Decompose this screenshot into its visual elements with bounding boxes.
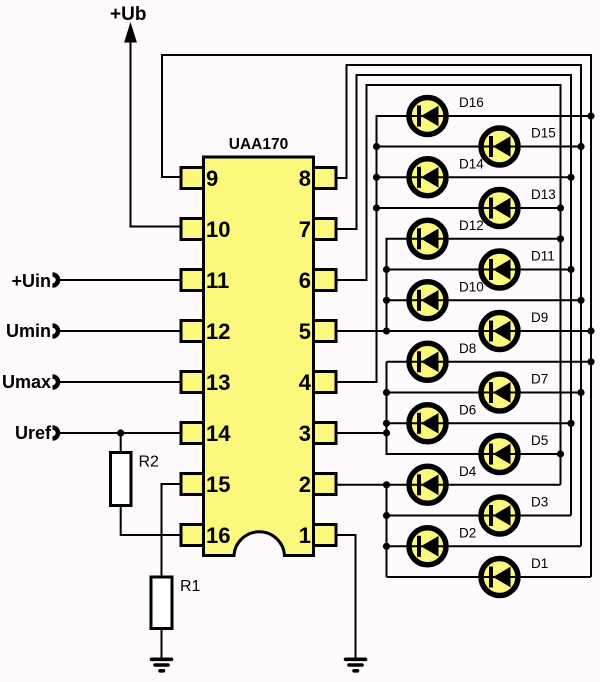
svg-text:13: 13	[206, 370, 230, 395]
svg-text:D13: D13	[531, 187, 556, 202]
svg-text:D2: D2	[459, 525, 476, 540]
svg-text:R2: R2	[139, 454, 160, 471]
svg-text:D5: D5	[531, 433, 548, 448]
svg-text:D7: D7	[531, 372, 548, 387]
svg-text:+Ub: +Ub	[110, 4, 146, 25]
svg-text:D11: D11	[531, 249, 555, 264]
svg-text:15: 15	[206, 472, 230, 497]
svg-text:12: 12	[206, 319, 230, 344]
svg-text:UAA170: UAA170	[229, 136, 288, 153]
svg-text:6: 6	[299, 268, 311, 293]
svg-text:D10: D10	[459, 279, 484, 294]
svg-text:D12: D12	[459, 218, 484, 233]
svg-text:D14: D14	[459, 156, 484, 171]
svg-text:D4: D4	[459, 464, 477, 479]
svg-text:D15: D15	[531, 126, 556, 141]
svg-text:R1: R1	[180, 578, 201, 595]
svg-text:4: 4	[299, 370, 312, 395]
svg-text:Umax: Umax	[2, 372, 51, 392]
svg-text:D1: D1	[531, 556, 548, 571]
svg-text:+Uin: +Uin	[11, 271, 51, 291]
svg-text:1: 1	[299, 523, 311, 548]
svg-text:11: 11	[206, 268, 229, 293]
svg-text:D16: D16	[459, 95, 484, 110]
svg-text:9: 9	[206, 166, 218, 191]
svg-text:16: 16	[206, 523, 230, 548]
svg-text:D3: D3	[531, 495, 548, 510]
svg-text:14: 14	[206, 421, 231, 446]
svg-text:7: 7	[299, 217, 311, 242]
svg-text:2: 2	[299, 472, 311, 497]
svg-text:D8: D8	[459, 341, 476, 356]
svg-text:3: 3	[299, 421, 311, 446]
svg-text:5: 5	[299, 319, 311, 344]
svg-text:Umin: Umin	[6, 321, 51, 341]
svg-text:8: 8	[299, 166, 311, 191]
svg-text:10: 10	[206, 217, 230, 242]
svg-text:D9: D9	[531, 310, 548, 325]
svg-text:D6: D6	[459, 402, 476, 417]
svg-text:Uref: Uref	[15, 423, 52, 443]
